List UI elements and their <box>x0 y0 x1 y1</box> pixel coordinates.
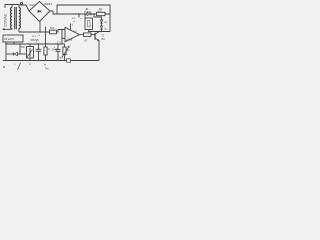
node collector <box>98 31 99 32</box>
svg-text:68 кΩ*2: 68 кΩ*2 <box>4 37 14 41</box>
resistor vertical x45.5 <box>45 32 47 47</box>
svg-text:81К: 81К <box>50 27 55 30</box>
bridge internal diode <box>38 10 41 13</box>
wire branch up to top rail <box>57 5 110 32</box>
op-amp U1 triangle <box>65 27 80 42</box>
svg-text:10Ω: 10Ω <box>98 12 103 14</box>
wire relay drop <box>84 14 86 18</box>
zener diode VK <box>100 20 103 23</box>
svg-text:+: + <box>38 33 40 37</box>
op-amp power stub <box>70 24 72 30</box>
wire diode chain jog <box>94 14 102 20</box>
svg-text:ЮК: ЮК <box>21 46 25 49</box>
transformer core <box>14 7 16 29</box>
node rail x45.5 <box>45 31 46 32</box>
resistor vertical x64.5 with pot arrow <box>62 44 65 47</box>
filter capacitor C1 <box>38 44 40 49</box>
wire left vertical <box>5 42 7 61</box>
svg-text:1N448: 1N448 <box>84 12 91 14</box>
wire bridge bottom vertex down <box>39 21 41 32</box>
svg-text:а: а <box>3 65 5 69</box>
svg-text:4,7к: 4,7к <box>57 42 61 44</box>
wire AC input top lead <box>5 5 19 9</box>
terminal D circle <box>20 2 22 4</box>
node after diode <box>93 13 94 14</box>
potentiometer box <box>27 47 34 59</box>
svg-text:LМ38: LМ38 <box>66 38 73 41</box>
capacitor C2 vertical x58 <box>57 44 59 50</box>
wire op-amp output <box>80 34 84 36</box>
figure slash mark <box>18 63 21 71</box>
svg-text:ВU: ВU <box>102 38 106 41</box>
resistor base drive <box>84 33 92 37</box>
wire bridge plus output <box>50 11 110 14</box>
bridge rectifier diamond <box>29 2 50 22</box>
wire secondary top to bridge <box>19 5 29 11</box>
svg-text:1N4Φ4: 1N4Φ4 <box>44 2 53 6</box>
wire secondary bottom to rail <box>18 29 20 33</box>
svg-text:дт: дт <box>29 63 31 65</box>
wire AC input bottom lead with arrow <box>4 28 12 31</box>
transformer leads primary <box>11 5 13 8</box>
node diode on rail14 <box>84 13 85 14</box>
wire label box bottom lead <box>13 42 15 45</box>
svg-text:220VAC: 220VAC <box>4 13 8 27</box>
transistor T1 <box>94 33 96 40</box>
wire stub pot top <box>19 44 21 54</box>
svg-text:+U: +U <box>72 18 75 20</box>
zener diode VC <box>100 26 103 29</box>
wire stub up from rail node <box>45 27 47 33</box>
background <box>0 0 114 74</box>
node supply on rail <box>78 13 79 14</box>
wire divider horizontal y44 <box>6 43 62 45</box>
resistor R1 top right <box>97 12 106 15</box>
transformer T1 primary winding <box>10 7 12 28</box>
bottom wire <box>3 60 99 62</box>
relay coil box <box>85 18 93 30</box>
svg-text:ВС: ВС <box>104 28 107 30</box>
node opamp plus input <box>61 29 62 30</box>
small box on bottom wire <box>67 59 71 62</box>
svg-text:6AC: 6AC <box>30 3 37 7</box>
diode bottom left <box>6 53 13 55</box>
rail from transformer to divider <box>19 31 50 33</box>
resistor 81K horizontal <box>50 30 57 34</box>
svg-text:о 1: о 1 <box>32 34 36 38</box>
svg-text:ТМ: ТМ <box>45 68 48 71</box>
wire inverting input vertical <box>61 30 63 45</box>
diode D1 on rail14 <box>87 13 91 16</box>
annotation label box <box>3 35 23 42</box>
rail lower right <box>89 31 110 33</box>
transformer T1 secondary winding <box>19 7 21 28</box>
svg-text:Ω: Ω <box>48 49 50 51</box>
